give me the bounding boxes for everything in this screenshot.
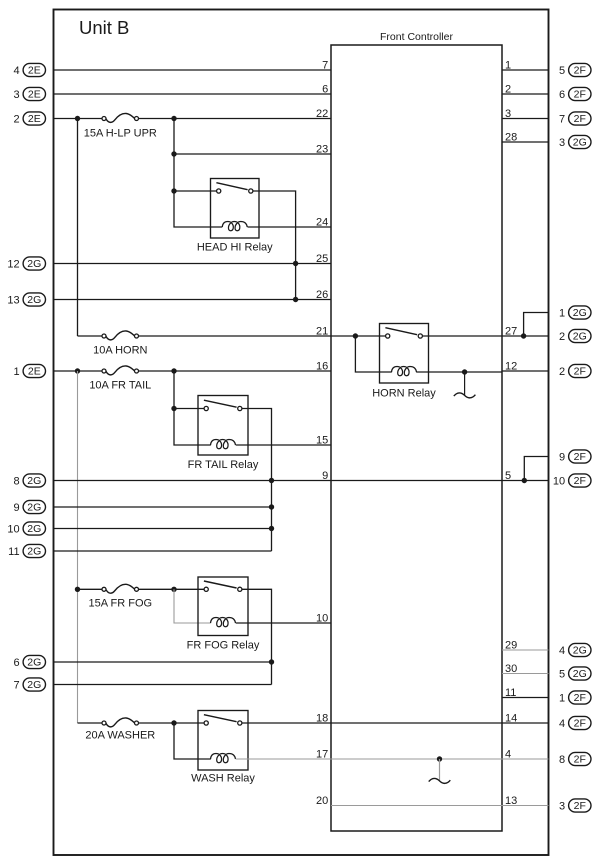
svg-text:4: 4 — [13, 65, 19, 77]
wire head-hi coil to pin 24 — [248, 226, 332, 228]
svg-text:24: 24 — [316, 216, 328, 228]
svg-text:4: 4 — [559, 718, 565, 730]
svg-text:9: 9 — [322, 470, 328, 482]
svg-text:6: 6 — [13, 657, 19, 669]
junction wash ground — [437, 756, 442, 761]
wire 1E supply vertical — [77, 371, 79, 723]
connector 6 2F (right) — [559, 87, 591, 101]
svg-text:16: 16 — [316, 360, 328, 372]
svg-text:2G: 2G — [27, 502, 41, 514]
wire head-hi branch vertical — [174, 119, 222, 228]
wire pin 21 to horn relay — [331, 335, 386, 337]
connector 5 2G (right) — [559, 667, 591, 681]
wire fuse F5 to wash switch — [139, 722, 205, 724]
svg-text:8: 8 — [13, 475, 19, 487]
svg-text:2E: 2E — [28, 89, 41, 101]
wire pin 2 to 6 2F — [502, 93, 549, 95]
svg-text:12: 12 — [7, 258, 19, 270]
wire pin 12 to 2 2F — [502, 370, 549, 372]
junction horn ground — [462, 369, 467, 374]
svg-text:2G: 2G — [27, 546, 41, 558]
junction fr-tail out row 9 2G — [269, 504, 274, 509]
svg-text:2F: 2F — [574, 89, 586, 101]
junction to fr-tail switch — [171, 406, 176, 411]
svg-text:2E: 2E — [28, 65, 41, 77]
connector 4 2F (right) — [559, 716, 591, 730]
svg-text:2F: 2F — [574, 800, 586, 812]
connector 10 2F (right) — [553, 474, 591, 488]
relay FR FOG (K4) — [187, 577, 260, 652]
svg-text:3: 3 — [505, 108, 511, 120]
svg-text:30: 30 — [505, 663, 517, 675]
wire horn coil to pin 12 — [416, 371, 502, 373]
svg-text:2F: 2F — [574, 451, 586, 463]
svg-text:20A WASHER: 20A WASHER — [85, 730, 155, 742]
wire horn switch to pin 27 — [423, 335, 503, 337]
wire 3 2E to pin 6 — [54, 93, 332, 95]
junction fr-fog supply tap — [75, 587, 80, 592]
junction fr-fog coil tap — [171, 587, 176, 592]
svg-text:2F: 2F — [574, 692, 586, 704]
svg-text:7: 7 — [559, 113, 565, 125]
wire pin 20 through pin 13 to 3 2F — [331, 805, 549, 807]
wire 8 2G to pin 9 and pin 5 to 10 2F — [54, 480, 549, 482]
svg-text:17: 17 — [316, 748, 328, 760]
wire fuse F4 to fr-fog switch — [139, 588, 205, 590]
junction head-hi out row 26 — [293, 297, 298, 302]
svg-text:12: 12 — [505, 360, 517, 372]
svg-text:2F: 2F — [574, 754, 586, 766]
relay FR TAIL (K3) — [188, 396, 259, 472]
wire 9 2G — [54, 506, 272, 508]
junction 1 2G branch — [521, 333, 526, 338]
wire pin 1 to 5 2F — [502, 69, 549, 71]
relay WASH (K5) — [191, 711, 255, 785]
svg-text:10A FR TAIL: 10A FR TAIL — [89, 380, 151, 392]
svg-text:15A FR FOG: 15A FR FOG — [89, 598, 153, 610]
wire wash coil to pin 17 through pin 4 to 8 2F — [236, 758, 549, 760]
svg-text:2G: 2G — [27, 475, 41, 487]
connector 2 2G (right) — [559, 329, 591, 343]
svg-text:2F: 2F — [574, 718, 586, 730]
svg-text:2G: 2G — [27, 679, 41, 691]
relay HEAD HI (K1) — [197, 179, 273, 254]
svg-text:10: 10 — [553, 475, 565, 487]
svg-text:2G: 2G — [573, 645, 587, 657]
wire pin 30 to 5 2G — [502, 673, 549, 675]
wire fr-fog switch output — [242, 589, 272, 684]
connector 8 2G (left) — [13, 474, 45, 488]
wire horn coil feed — [355, 336, 391, 372]
svg-text:11: 11 — [505, 687, 516, 699]
svg-text:13: 13 — [7, 294, 19, 306]
svg-text:9: 9 — [559, 451, 565, 463]
svg-text:1: 1 — [559, 692, 565, 704]
wire 13 2G to pin 26 — [54, 299, 332, 301]
connector 8 2F (right) — [559, 752, 591, 766]
connector 3 2G (right) — [559, 135, 591, 149]
wire washer fuse feed — [78, 722, 103, 724]
svg-text:7: 7 — [322, 59, 328, 71]
svg-text:2G: 2G — [573, 331, 587, 343]
wire head-hi switch output — [253, 191, 296, 300]
svg-text:29: 29 — [505, 639, 517, 651]
svg-text:2G: 2G — [27, 523, 41, 535]
Front Controller box — [331, 45, 502, 831]
wire wash coil feed — [174, 723, 211, 759]
wire fr-tail coil to pin 15 — [236, 444, 331, 446]
connector 4 2G (right) — [559, 643, 591, 657]
wire 6 2G — [54, 661, 272, 663]
junction to head-hi switch — [171, 188, 176, 193]
junction 1E supply — [75, 368, 80, 373]
connector 6 2G (left) — [13, 655, 45, 669]
wire fuse F3 to pin 16 — [139, 370, 332, 372]
svg-text:10: 10 — [7, 523, 19, 535]
wire to head-hi switch contact — [174, 190, 217, 192]
fuse F5 20A WASHER — [102, 718, 139, 727]
wire horn fuse feed — [78, 335, 103, 337]
wire 4 2E to pin 7 — [54, 69, 332, 71]
wire fr-tail switch output — [242, 409, 272, 552]
connector 7 2G (left) — [13, 678, 45, 692]
connector 9 2G (left) — [13, 500, 45, 514]
wire fr-fog coil to pin 10 — [236, 622, 331, 624]
ground G2 wash relay — [429, 759, 451, 783]
connector 11 2G (left) — [8, 544, 45, 558]
svg-text:6: 6 — [559, 89, 565, 101]
svg-text:3: 3 — [559, 800, 565, 812]
svg-text:1: 1 — [559, 307, 565, 319]
svg-text:2G: 2G — [27, 294, 41, 306]
svg-text:11: 11 — [8, 546, 19, 558]
wire fr-tail branch vertical — [174, 371, 211, 445]
svg-text:2G: 2G — [27, 657, 41, 669]
connector 13 2G (left) — [7, 293, 45, 307]
svg-text:2: 2 — [13, 113, 19, 125]
svg-text:2: 2 — [559, 366, 565, 378]
svg-text:13: 13 — [505, 795, 517, 807]
svg-text:8: 8 — [559, 754, 565, 766]
svg-text:2F: 2F — [574, 475, 586, 487]
svg-text:9: 9 — [13, 502, 19, 514]
wire pin 27 to 2 2G — [502, 335, 549, 337]
junction fuse F1 output — [171, 116, 176, 121]
svg-text:2E: 2E — [28, 113, 41, 125]
junction 2E supply — [75, 116, 80, 121]
wire 1 2E to fuse — [54, 370, 103, 372]
svg-text:1: 1 — [13, 366, 19, 378]
svg-text:2F: 2F — [574, 366, 586, 378]
svg-text:6: 6 — [322, 83, 328, 95]
svg-text:2E: 2E — [28, 366, 41, 378]
connector 5 2F (right) — [559, 63, 591, 77]
relay HORN (K2) — [372, 324, 436, 400]
svg-text:27: 27 — [505, 325, 517, 337]
svg-text:22: 22 — [316, 108, 328, 120]
svg-text:10: 10 — [316, 612, 328, 624]
svg-text:2: 2 — [559, 331, 565, 343]
connector 3 2F (right) — [559, 799, 591, 813]
svg-text:FR FOG Relay: FR FOG Relay — [187, 640, 260, 652]
svg-text:20: 20 — [316, 795, 328, 807]
svg-text:HEAD HI Relay: HEAD HI Relay — [197, 242, 273, 254]
connector 1 2F (right) — [559, 691, 591, 705]
connector 10 2G (left) — [7, 522, 45, 536]
wire fuse F2 to pin 21 — [139, 335, 332, 337]
wire 12 2G to pin 25 — [54, 263, 332, 265]
wire 2 2E to fuse — [54, 118, 103, 120]
svg-text:2G: 2G — [573, 307, 587, 319]
svg-text:10A HORN: 10A HORN — [93, 345, 147, 357]
svg-text:2G: 2G — [573, 668, 587, 680]
svg-text:5: 5 — [505, 470, 511, 482]
connector 1 2G (right) — [559, 306, 591, 320]
svg-text:2G: 2G — [27, 258, 41, 270]
svg-text:18: 18 — [316, 712, 328, 724]
svg-text:21: 21 — [316, 325, 328, 337]
junction fr-tail out row 8 2G — [269, 478, 274, 483]
svg-text:5: 5 — [559, 65, 565, 77]
svg-text:26: 26 — [316, 289, 328, 301]
svg-text:2G: 2G — [573, 137, 587, 149]
svg-text:15: 15 — [316, 434, 328, 446]
svg-text:14: 14 — [505, 712, 517, 724]
connector 2 2F (right) — [559, 364, 591, 378]
wire 2E supply vertical — [77, 119, 79, 337]
svg-text:1: 1 — [505, 59, 511, 71]
wire pin 11 to 1 2F — [502, 697, 549, 699]
svg-text:25: 25 — [316, 253, 328, 265]
svg-text:4: 4 — [559, 645, 565, 657]
svg-text:2F: 2F — [574, 65, 586, 77]
svg-text:4: 4 — [505, 748, 511, 760]
junction 9 2F branch — [522, 478, 527, 483]
wire pin 3 to 7 2F — [502, 118, 549, 120]
wire 11 2G — [54, 550, 272, 552]
wire fr-fog fuse feed — [78, 588, 103, 590]
wire 7 2G — [54, 684, 272, 686]
svg-text:23: 23 — [316, 143, 328, 155]
wire branch to 9 2F — [524, 457, 548, 481]
svg-text:7: 7 — [13, 679, 19, 691]
junction fuse F3 output — [171, 368, 176, 373]
junction fr-tail out row 10 2G — [269, 526, 274, 531]
wire to fr-tail switch contact — [174, 408, 204, 410]
wire fr-fog coil feed — [174, 589, 211, 623]
fuse F4 15A FR FOG — [102, 584, 139, 593]
svg-text:15A H-LP UPR: 15A H-LP UPR — [84, 128, 157, 140]
fuse F2 10A HORN — [102, 331, 139, 340]
wire pin 28 to 3 2G — [502, 141, 549, 143]
fuse F3 10A FR TAIL — [102, 366, 139, 375]
ground G1 horn relay — [454, 372, 476, 398]
wire branch to 1 2G — [524, 313, 549, 337]
svg-text:FR TAIL Relay: FR TAIL Relay — [188, 459, 259, 471]
svg-text:Front Controller: Front Controller — [380, 31, 453, 43]
junction fr-fog out row 6 2G — [269, 659, 274, 664]
wire pin 29 to 4 2G — [502, 649, 549, 651]
connector 4 2E (left) — [13, 63, 45, 77]
fuse F1 15A H-LP UPR — [102, 113, 139, 122]
svg-text:5: 5 — [559, 668, 565, 680]
wire fuse F1 to pin 22 — [139, 118, 332, 120]
svg-text:28: 28 — [505, 131, 517, 143]
connector 12 2G (left) — [7, 257, 45, 271]
wire wash switch to pin 18 through pin 14 to 4 2F — [242, 722, 549, 724]
junction horn relay feed — [353, 333, 358, 338]
junction wash coil tap — [171, 720, 176, 725]
junction to pin 23 — [171, 151, 176, 156]
wire 10 2G — [54, 528, 272, 530]
svg-text:2F: 2F — [574, 113, 586, 125]
svg-text:2: 2 — [505, 83, 511, 95]
svg-text:HORN Relay: HORN Relay — [372, 388, 436, 400]
connector 2 2E (left) — [13, 112, 45, 126]
svg-text:3: 3 — [559, 137, 565, 149]
svg-text:Unit B: Unit B — [79, 17, 129, 38]
svg-text:WASH Relay: WASH Relay — [191, 773, 255, 785]
svg-text:3: 3 — [13, 89, 19, 101]
connector 3 2E (left) — [13, 87, 45, 101]
connector 9 2F (right) — [559, 450, 591, 464]
wire to pin 23 — [174, 153, 331, 155]
connector 7 2F (right) — [559, 112, 591, 126]
connector 1 2E (left) — [13, 364, 45, 378]
junction head-hi out row 25 — [293, 261, 298, 266]
